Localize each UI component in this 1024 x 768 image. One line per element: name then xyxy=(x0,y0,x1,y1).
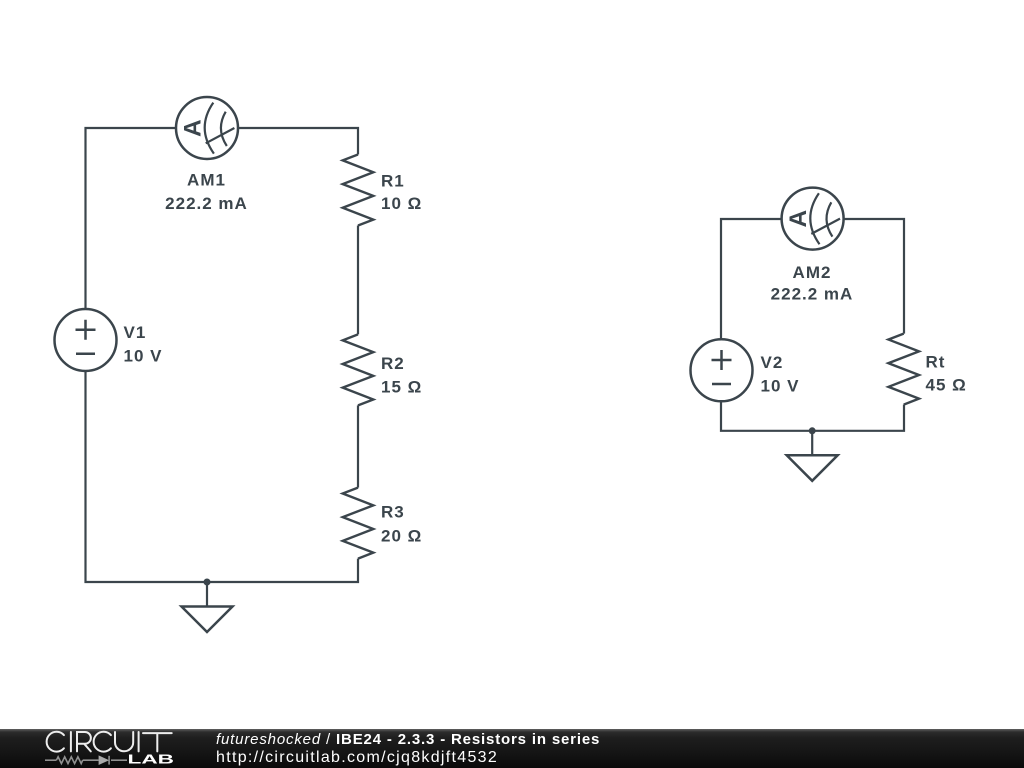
svg-text:LAB: LAB xyxy=(128,753,175,767)
